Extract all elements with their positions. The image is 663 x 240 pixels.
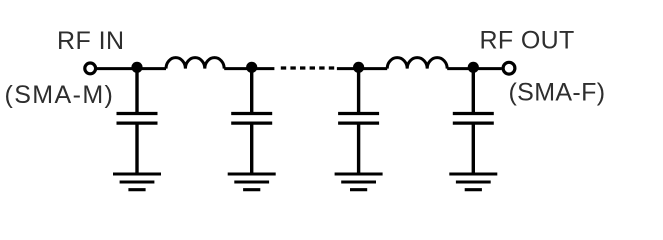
svg-text:RF IN: RF IN xyxy=(57,27,125,55)
svg-text:(SMA-M): (SMA-M) xyxy=(5,81,115,109)
svg-text:RF OUT: RF OUT xyxy=(480,27,575,55)
svg-text:(SMA-F): (SMA-F) xyxy=(509,79,606,107)
